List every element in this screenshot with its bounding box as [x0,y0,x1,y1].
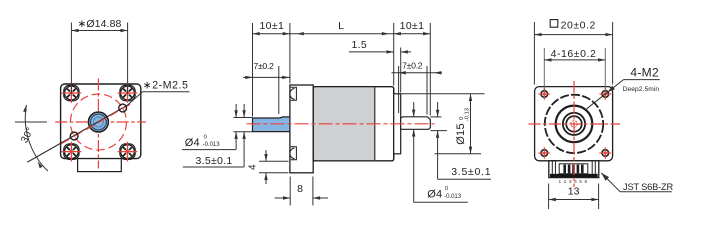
svg-text:0: 0 [445,186,448,192]
svg-text:JST S6B-ZR: JST S6B-ZR [623,182,673,192]
svg-text:Ø4: Ø4 [185,137,200,149]
svg-text:Ø4: Ø4 [427,188,442,200]
svg-text:6: 6 [584,179,587,185]
svg-text:2: 2 [564,179,567,185]
svg-text:∗Ø14.88: ∗Ø14.88 [78,18,122,30]
svg-text:0: 0 [204,134,207,140]
svg-text:1.5: 1.5 [352,39,368,51]
svg-text:10±1: 10±1 [400,20,425,32]
svg-text:4: 4 [248,164,259,170]
svg-text:3.5±0.1: 3.5±0.1 [196,155,233,167]
svg-text:∗2-M2.5: ∗2-M2.5 [143,79,189,91]
svg-text:4-16±0.2: 4-16±0.2 [551,48,597,60]
svg-text:Deep2.5min: Deep2.5min [623,86,660,93]
svg-text:20±0.2: 20±0.2 [561,19,596,31]
svg-text:-0.013: -0.013 [444,194,462,200]
svg-text:-0.013: -0.013 [203,142,221,148]
svg-text:Ø15: Ø15 [455,123,467,145]
svg-text:3.5±0.1: 3.5±0.1 [451,166,491,178]
svg-text:4-M2: 4-M2 [630,66,659,80]
svg-text:7±0.2: 7±0.2 [253,61,274,71]
svg-text:13: 13 [568,186,580,198]
svg-text:10±1: 10±1 [259,20,284,32]
svg-text:8: 8 [297,183,303,195]
svg-text:1: 1 [558,179,561,185]
svg-text:5: 5 [579,179,582,185]
svg-text:-0.13: -0.13 [464,108,470,121]
svg-text:7±0.2: 7±0.2 [402,60,423,70]
svg-text:L: L [338,20,344,32]
svg-text:3: 3 [569,179,572,185]
